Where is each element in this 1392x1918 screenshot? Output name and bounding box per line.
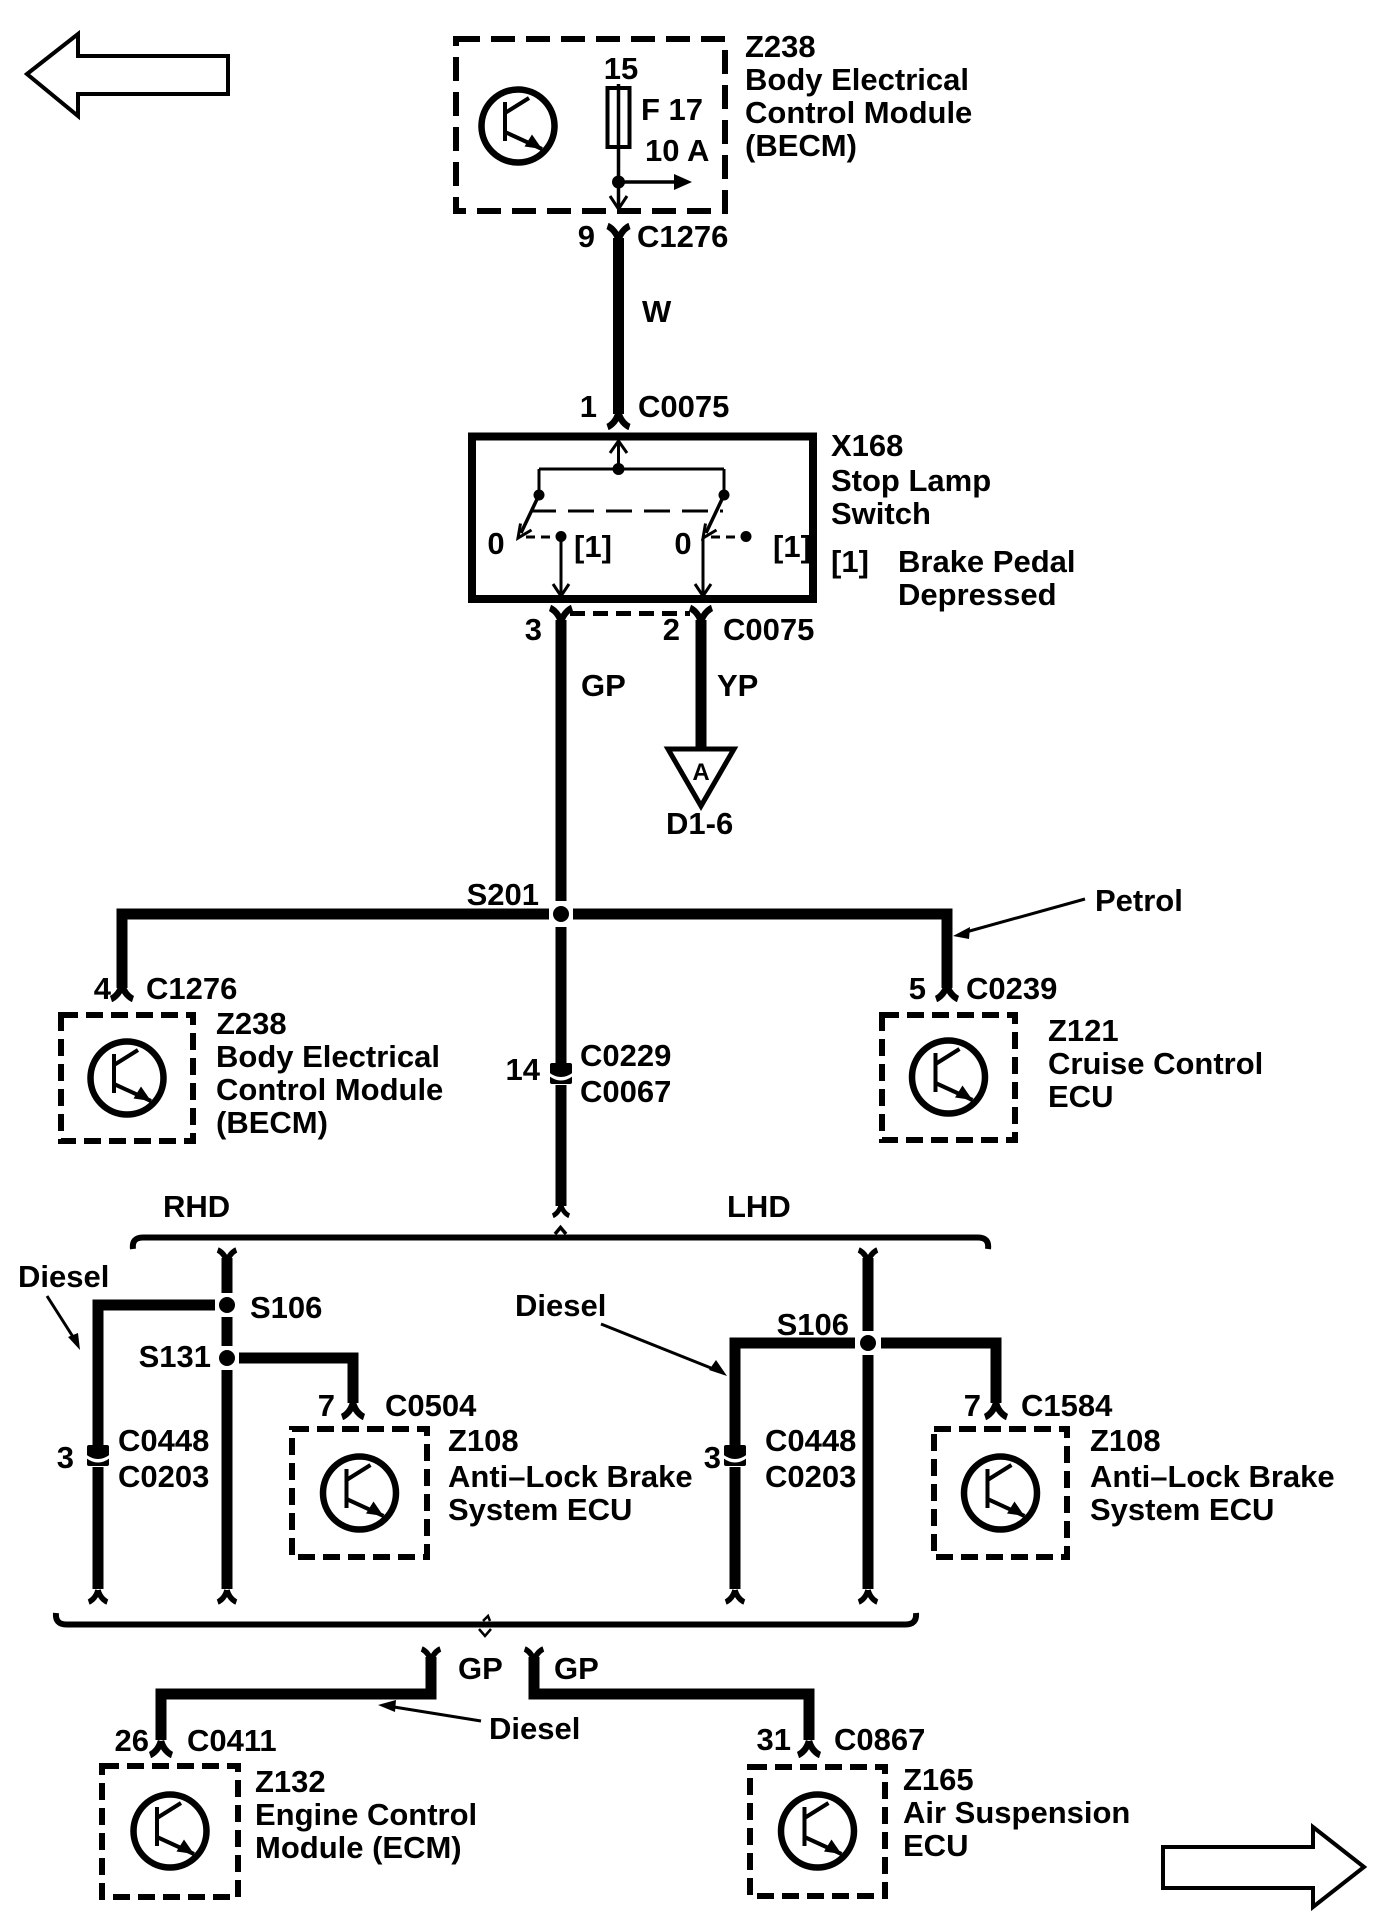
right contact dashed stub — [711, 536, 735, 539]
splice S106 right branch wire right leg to pin 7 — [881, 1343, 996, 1403]
splice S106 right branch wire left leg — [735, 1343, 855, 1447]
svg-text:26: 26 — [115, 1723, 149, 1758]
GP stub fork right — [525, 1649, 544, 1661]
svg-text:Diesel: Diesel — [18, 1259, 109, 1294]
right switch blade with arrow tip — [706, 495, 724, 533]
page arrow right (off-sheet pointer) — [1163, 1827, 1364, 1907]
splice bus wire left of S201 with branch to pin 4 — [122, 914, 549, 988]
svg-text:S106: S106 — [777, 1307, 849, 1342]
wire W (thick) — [613, 238, 624, 414]
connector fork pin 4 — [111, 985, 133, 999]
RHD main drop wire (upper) — [222, 1258, 233, 1293]
svg-text:C0075: C0075 — [723, 612, 814, 647]
svg-text:W: W — [642, 294, 672, 329]
svg-text:C0504: C0504 — [385, 1388, 477, 1423]
svg-text:Module (ECM): Module (ECM) — [255, 1830, 462, 1865]
svg-text:System ECU: System ECU — [1090, 1492, 1274, 1527]
RHD drop wire between S106 and S131 — [222, 1317, 233, 1346]
right [1] contact dot — [741, 531, 752, 542]
caret joint on bus — [555, 1228, 566, 1235]
svg-text:14: 14 — [506, 1052, 541, 1087]
svg-text:[1]: [1] — [773, 529, 811, 564]
svg-text:[1]: [1] — [574, 529, 612, 564]
svg-text:S201: S201 — [467, 877, 539, 912]
wire GP from pin 3 — [556, 620, 567, 901]
svg-text:7: 7 — [318, 1388, 335, 1423]
wire end fork above bottom bus x868 — [859, 1590, 878, 1602]
svg-text:Z238: Z238 — [216, 1006, 287, 1041]
svg-text:S131: S131 — [139, 1339, 211, 1374]
svg-text:GP: GP — [581, 668, 626, 703]
ECU symbol inside Z238 left — [91, 1042, 164, 1115]
svg-text:Z108: Z108 — [1090, 1423, 1161, 1458]
splice dot S131 — [219, 1350, 235, 1366]
svg-text:C0203: C0203 — [118, 1459, 209, 1494]
svg-text:Switch: Switch — [831, 496, 931, 531]
wire below inline connector left — [93, 1467, 104, 1589]
GP run to pin 26 — [161, 1657, 431, 1740]
svg-text:Z238: Z238 — [745, 29, 816, 64]
svg-text:C0203: C0203 — [765, 1459, 856, 1494]
svg-text:3: 3 — [57, 1440, 74, 1475]
internal feed arrow right — [619, 180, 679, 184]
wire YP from pin 2 — [696, 620, 707, 751]
svg-text:ECU: ECU — [903, 1828, 968, 1863]
svg-text:[1]: [1] — [831, 544, 869, 579]
internal rail wire — [539, 468, 724, 471]
pin 1 male arrow inside box — [610, 441, 627, 453]
switch box X168 — [472, 437, 813, 600]
mechanical coupling dashed link — [530, 510, 723, 513]
svg-text:GP: GP — [458, 1651, 503, 1686]
svg-text:5: 5 — [909, 971, 926, 1006]
splice dot S201 — [553, 906, 569, 922]
module box Z132 (dashed) — [102, 1766, 238, 1897]
junction dot on rail — [613, 463, 625, 475]
module box Z108 left (dashed) — [292, 1429, 427, 1557]
module box Z108 right (dashed) — [934, 1429, 1067, 1557]
wire through fuse F17 — [617, 84, 621, 182]
LHD main drop wire (upper) — [863, 1258, 874, 1331]
svg-text:C0075: C0075 — [638, 389, 729, 424]
ECU symbol inside Z132 — [134, 1795, 207, 1868]
fuse F17 body — [608, 88, 630, 147]
svg-text:Petrol: Petrol — [1095, 883, 1183, 918]
RHD/LHD bus bar — [133, 1238, 988, 1250]
connector fork pin 7 left — [342, 1403, 364, 1417]
svg-text:Anti–Lock Brake: Anti–Lock Brake — [1090, 1459, 1335, 1494]
svg-text:4: 4 — [94, 971, 112, 1006]
left switch blade with arrow tip — [521, 495, 539, 533]
RHD hang fork — [218, 1250, 237, 1262]
svg-text:1: 1 — [580, 389, 597, 424]
splice dot S106 left — [219, 1297, 235, 1313]
svg-text:7: 7 — [964, 1388, 981, 1423]
svg-text:Control Module: Control Module — [216, 1072, 443, 1107]
internal wire down with arrow at box edge — [617, 182, 621, 206]
svg-text:C0867: C0867 — [834, 1722, 925, 1757]
svg-text:Body Electrical: Body Electrical — [745, 62, 969, 97]
svg-text:RHD: RHD — [163, 1189, 230, 1224]
ECU symbol inside Z165 — [781, 1795, 854, 1868]
svg-text:GP: GP — [554, 1651, 599, 1686]
bottom bus bar — [56, 1613, 916, 1625]
svg-text:C0448: C0448 — [118, 1423, 209, 1458]
svg-text:C0067: C0067 — [580, 1074, 671, 1109]
connector fork pin 5 — [936, 985, 958, 999]
connector fork pin 2 — [690, 608, 712, 622]
right pole output wire with arrow — [702, 538, 705, 593]
connector fork pin 26 — [150, 1741, 172, 1755]
left [1] contact dot — [556, 531, 567, 542]
splice bus wire right of S201 with branch to pin 5 — [573, 914, 947, 988]
svg-text:9: 9 — [578, 219, 595, 254]
svg-text:(BECM): (BECM) — [745, 128, 857, 163]
off-page triangle A — [668, 749, 734, 806]
svg-text:C0411: C0411 — [187, 1723, 277, 1758]
svg-text:Anti–Lock Brake: Anti–Lock Brake — [448, 1459, 693, 1494]
wire below inline connector right — [730, 1467, 741, 1589]
left contact dashed stub — [526, 536, 550, 539]
module box Z121 (dashed) — [882, 1015, 1015, 1140]
right pivot dot — [719, 490, 730, 501]
svg-text:C1584: C1584 — [1021, 1388, 1113, 1423]
GP stub fork left — [422, 1649, 441, 1661]
svg-text:0: 0 — [487, 526, 504, 561]
svg-text:Body Electrical: Body Electrical — [216, 1039, 440, 1074]
svg-text:C0239: C0239 — [966, 971, 1057, 1006]
wire end fork above bottom bus x98 — [89, 1590, 108, 1602]
page arrow left (off-sheet pointer) — [27, 34, 228, 116]
ECU symbol inside Z121 — [912, 1041, 985, 1114]
module box Z165 (dashed) — [750, 1767, 885, 1896]
caret joint on bottom bus — [483, 1616, 490, 1621]
svg-text:3: 3 — [704, 1440, 721, 1475]
wire end fork above bottom bus x227 — [218, 1590, 237, 1602]
GP run to pin 31 — [534, 1657, 809, 1740]
svg-text:Cruise Control: Cruise Control — [1048, 1046, 1263, 1081]
LHD drop wire below S106 — [863, 1355, 874, 1589]
wire down to RHD/LHD bus — [556, 1085, 567, 1206]
svg-text:Z165: Z165 — [903, 1762, 974, 1797]
left pivot dot — [534, 490, 545, 501]
svg-text:Air Suspension: Air Suspension — [903, 1795, 1130, 1830]
svg-text:YP: YP — [717, 668, 758, 703]
module box Z238 BECM (top, dashed) — [456, 39, 725, 211]
svg-text:LHD: LHD — [727, 1189, 791, 1224]
splice S131 branch wire to pin 7 — [239, 1358, 353, 1403]
svg-text:3: 3 — [525, 612, 542, 647]
left pole output wire with arrow — [560, 537, 563, 594]
svg-text:(BECM): (BECM) — [216, 1105, 328, 1140]
RHD drop wire below S131 — [222, 1370, 233, 1589]
splice dot S106 right — [860, 1335, 876, 1351]
svg-text:Diesel: Diesel — [515, 1288, 606, 1323]
svg-text:A: A — [692, 759, 709, 786]
svg-text:31: 31 — [757, 1722, 791, 1757]
svg-text:D1-6: D1-6 — [666, 806, 733, 841]
svg-text:C0229: C0229 — [580, 1038, 671, 1073]
svg-text:C0448: C0448 — [765, 1423, 856, 1458]
connector fork pin 1 — [608, 413, 630, 427]
LHD hang fork — [859, 1250, 878, 1262]
wire end fork above bottom bus x735 — [726, 1590, 745, 1602]
connector fork pin 9 — [608, 226, 630, 240]
svg-text:Engine Control: Engine Control — [255, 1797, 477, 1832]
svg-text:Z132: Z132 — [255, 1764, 326, 1799]
svg-text:C1276: C1276 — [637, 219, 728, 254]
svg-text:Z121: Z121 — [1048, 1013, 1119, 1048]
svg-text:Diesel: Diesel — [489, 1711, 580, 1746]
svg-text:F 17: F 17 — [641, 92, 703, 127]
svg-text:Brake Pedal: Brake Pedal — [898, 544, 1076, 579]
splice S106 branch wire to diesel left — [98, 1305, 215, 1447]
svg-text:Control Module: Control Module — [745, 95, 972, 130]
left pole drop wire — [538, 469, 541, 495]
right pole drop wire — [723, 469, 726, 495]
svg-text:S106: S106 — [250, 1290, 322, 1325]
svg-text:0: 0 — [674, 526, 691, 561]
svg-text:Z108: Z108 — [448, 1423, 519, 1458]
svg-text:15: 15 — [604, 51, 638, 86]
svg-text:System ECU: System ECU — [448, 1492, 632, 1527]
connector fork pin 31 — [798, 1741, 820, 1755]
wire below S201 — [556, 927, 567, 1063]
connector fork pin 7 right — [985, 1403, 1007, 1417]
module box Z238 BECM (left, dashed) — [61, 1015, 193, 1141]
svg-text:10 A: 10 A — [645, 133, 709, 168]
svg-text:2: 2 — [663, 612, 680, 647]
connector C0075 dashed link — [570, 611, 690, 616]
ECU symbol inside Z108 left — [323, 1457, 396, 1530]
wire end fork above bus — [553, 1205, 570, 1216]
junction dot inside BECM — [612, 176, 625, 189]
svg-text:ECU: ECU — [1048, 1079, 1113, 1114]
ECU symbol inside Z108 right — [964, 1457, 1037, 1530]
connector fork pin 3 — [550, 608, 572, 622]
svg-text:Stop Lamp: Stop Lamp — [831, 463, 991, 498]
svg-text:X168: X168 — [831, 428, 903, 463]
svg-text:C1276: C1276 — [146, 971, 237, 1006]
svg-text:Depressed: Depressed — [898, 577, 1057, 612]
ECU symbol inside Z238 top — [482, 90, 555, 163]
